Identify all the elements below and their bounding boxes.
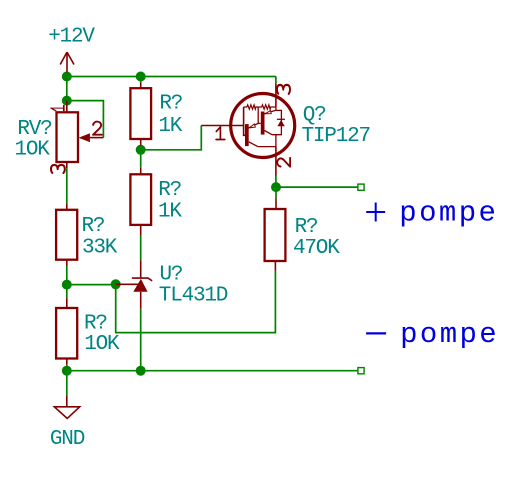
- wire: TL431 anode to ground rail: [140, 309, 142, 371]
- internal: drop to Q2 base: [258, 107, 261, 123]
- resistor R5 470K: [265, 198, 286, 270]
- transistor Q1 TIP127: [201, 84, 294, 176]
- shunt regulator U1 TL431D: [116, 260, 152, 308]
- wire: R10K bottom to J8: [66, 365, 68, 371]
- junction J5: [271, 182, 281, 192]
- resistor R3 33K: [56, 203, 77, 266]
- internal: Q2 base bar: [261, 112, 265, 135]
- wire: J5 to +pompe square: [276, 186, 358, 188]
- junction J3: [136, 72, 146, 82]
- svg-text:pompe: pompe: [399, 197, 498, 230]
- wire: rail down to Q pin3: [275, 77, 277, 85]
- wire: J4 to Q base: [141, 126, 202, 150]
- wire: J6 to J7 horizontal: [67, 284, 116, 286]
- resistor R1 1K (top middle): [130, 83, 151, 146]
- svg-text:R?: R?: [158, 179, 181, 202]
- junction J4: [136, 145, 146, 155]
- svg-text:47OK: 47OK: [293, 237, 340, 260]
- svg-text:+12V: +12V: [48, 25, 95, 48]
- svg-text:33K: 33K: [82, 237, 118, 260]
- internal: Q1 collector diagonal: [249, 142, 258, 147]
- open wire-end square (+ pompe): [358, 184, 364, 190]
- internal resistor zigzag 1: [244, 105, 259, 109]
- wire: R33K bottom to J6: [66, 266, 68, 285]
- svg-text:U?: U?: [160, 264, 183, 287]
- svg-text:pompe: pompe: [400, 318, 499, 351]
- internal: right rail bottom: [258, 135, 276, 147]
- svg-text:R?: R?: [159, 92, 182, 115]
- wire: J6 to R10K top: [66, 285, 68, 299]
- svg-text:R?: R?: [295, 216, 318, 239]
- pin 2 line (collector, bottom): [275, 147, 277, 176]
- junction J8: [62, 366, 72, 376]
- pin number 1 (pot): [51, 105, 64, 110]
- internal: diode branch loop: [272, 110, 281, 134]
- cathode pin line: [140, 260, 142, 277]
- circle body: [231, 94, 295, 158]
- svg-text:Q?: Q?: [303, 104, 326, 127]
- internal: Q1 base bar: [245, 124, 249, 146]
- svg-text:1K: 1K: [158, 115, 182, 138]
- pin number 2 (Q): [277, 158, 290, 167]
- wire: ground rail: [67, 370, 358, 372]
- internal: left base rail: [244, 107, 245, 135]
- wire: J4 to R2 top: [140, 150, 142, 168]
- potentiometer RV1: [57, 101, 104, 169]
- internal: diode triangle: [277, 120, 284, 126]
- wire: R1 bottom to J4: [140, 146, 142, 150]
- wire: GND stem: [66, 371, 68, 396]
- open wire-end square (- pompe): [358, 368, 364, 374]
- pin 1 line (base, left): [201, 125, 243, 127]
- internal: Q1 emitter diagonal with arrow: [249, 123, 259, 127]
- svg-text:1K: 1K: [158, 201, 182, 224]
- junction J1: [62, 72, 72, 82]
- internal: diode cathode bar: [277, 118, 285, 120]
- junction J2: [62, 96, 72, 106]
- pin number 3 (Q): [277, 85, 290, 94]
- cathode bar with hook: [132, 278, 152, 281]
- wire: Q pin2 to J5: [275, 176, 277, 187]
- ref pin line: [116, 283, 139, 285]
- wire: J5 down to R470K: [275, 187, 277, 198]
- wire: pot pin3 down: [66, 168, 68, 203]
- junction J9: [136, 366, 146, 376]
- wire: +12V rail horizontal: [67, 76, 276, 78]
- pin number 3 (pot): [51, 165, 65, 173]
- wire: J1 to J2: [66, 77, 68, 101]
- wire: R2 bottom to TL431 cathode: [140, 235, 142, 260]
- svg-text:TL431D: TL431D: [159, 284, 228, 307]
- wire: wiper feedback loop: [67, 101, 104, 138]
- svg-text:1OK: 1OK: [84, 333, 120, 356]
- pin 3 line (emitter, top): [275, 84, 277, 107]
- anode pin line: [140, 292, 142, 309]
- svg-text:1OK: 1OK: [15, 138, 51, 161]
- svg-text:GND: GND: [50, 428, 85, 451]
- pin number 2 (pot): [93, 122, 102, 135]
- power symbol +12V: [60, 52, 74, 72]
- ground symbol: [54, 395, 79, 418]
- wire: J3 to R1 top: [140, 77, 142, 83]
- pin number 1 (Q): [216, 127, 225, 140]
- internal: pin3 stub into corner: [275, 107, 277, 110]
- svg-text:R?: R?: [82, 215, 105, 238]
- resistor R2 1K (mid middle): [130, 168, 151, 236]
- internal: Q2 emitter diagonal with arrow: [265, 110, 276, 114]
- wire: REF feedback down and right to 470K: [116, 271, 276, 333]
- internal: Q2 collector diagonal: [265, 131, 273, 135]
- label - pompe: [366, 318, 499, 351]
- junction J6: [62, 280, 72, 290]
- label + pompe: [366, 197, 498, 230]
- svg-text:TIP127: TIP127: [302, 125, 370, 148]
- internal resistor zigzag 2: [258, 105, 276, 109]
- anode triangle: [133, 279, 147, 292]
- resistor R4 10K: [56, 298, 77, 365]
- junction J7: [111, 279, 121, 289]
